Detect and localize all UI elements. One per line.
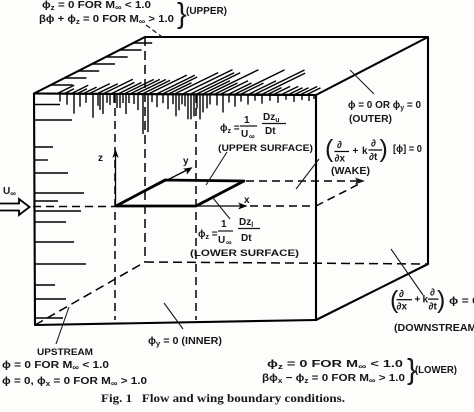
svg-text:+: + [353, 146, 359, 157]
hidden bottom-back edge [145, 262, 428, 264]
svg-text:∂: ∂ [337, 140, 342, 151]
y axis [116, 167, 193, 206]
svg-text:∂x: ∂x [335, 154, 346, 165]
lower surface equation [198, 217, 260, 247]
svg-text:ϕ = 0: ϕ = 0 [449, 296, 474, 307]
x axis [196, 203, 248, 210]
dashed horizontal z=0 right of x arrow [250, 205, 316, 207]
reference dashed verticals [33, 95, 316, 320]
leader lower surface [213, 198, 230, 219]
svg-text:+: + [415, 295, 421, 306]
box front face right edge [315, 95, 317, 320]
box front top edge [34, 94, 316, 96]
svg-text:∞: ∞ [249, 132, 255, 141]
box right face back edge [427, 37, 429, 264]
svg-text:): ) [437, 286, 445, 314]
svg-text:∞: ∞ [226, 238, 232, 247]
wake arrowhead [355, 178, 365, 185]
hidden edges dashed [35, 37, 428, 325]
svg-text:(OUTER): (OUTER) [349, 114, 392, 125]
dashed horizontal z=0 left of origin [33, 206, 115, 208]
hatching: front face left edge horizontals [35, 105, 87, 319]
leader downstream [391, 249, 423, 295]
dashed vertical through wing tip chord [195, 95, 197, 320]
leader dashed to UPPER [146, 25, 165, 39]
svg-text:(LOWER SURFACE): (LOWER SURFACE) [190, 247, 299, 258]
dashed vertical through origin [114, 95, 116, 320]
box right face bottom edge [316, 264, 428, 320]
svg-text:ϕz = 0 FOR M∞ < 1.0: ϕz = 0 FOR M∞ < 1.0 [42, 0, 151, 12]
leader inner [164, 303, 183, 329]
box top face [34, 37, 428, 95]
wake downstream dashed edge on right face [316, 184, 360, 207]
svg-text:x: x [244, 195, 250, 206]
svg-text:∂: ∂ [430, 288, 435, 299]
svg-text:(UPPER): (UPPER) [186, 6, 227, 17]
svg-text:ϕz =: ϕz = [220, 123, 240, 135]
svg-text:βϕ + ϕz = 0 FOR M∞ > 1.0: βϕ + ϕz = 0 FOR M∞ > 1.0 [39, 14, 174, 26]
svg-text:Dt: Dt [265, 126, 276, 137]
downstream equation [390, 286, 474, 314]
svg-text:(DOWNSTREAM): (DOWNSTREAM) [394, 323, 474, 334]
svg-text:∂t: ∂t [369, 152, 378, 163]
wake outer dashed edge [246, 180, 360, 182]
wing planform [116, 180, 244, 206]
svg-text:z: z [98, 153, 103, 164]
hidden back-left vertical edge [144, 37, 146, 262]
svg-text:(: ( [325, 135, 334, 163]
svg-text:Fig. 1 Flow and wing boundar: Fig. 1 Flow and wing boundary conditions… [101, 393, 345, 405]
svg-text:ϕz =: ϕz = [198, 229, 218, 241]
svg-text:1: 1 [244, 115, 250, 126]
leader upper surface [206, 152, 227, 185]
hatching: top face diagonals [58, 70, 321, 95]
svg-text:ϕ = 0 OR ϕy = 0: ϕ = 0 OR ϕy = 0 [348, 100, 421, 112]
svg-text:1: 1 [221, 219, 227, 230]
svg-text:Dt: Dt [241, 233, 252, 244]
svg-text:(LOWER): (LOWER) [415, 365, 457, 376]
svg-text:U: U [241, 129, 248, 140]
svg-text:∂: ∂ [399, 289, 404, 300]
hatching: top face horizontals along left edge [51, 43, 153, 85]
hidden bottom-left diagonal edge [35, 262, 145, 325]
U-infinity hollow arrow [0, 199, 30, 215]
svg-text:∂x: ∂x [397, 302, 408, 313]
upper surface equation [220, 112, 286, 141]
z axis [112, 149, 118, 206]
svg-text:βϕx − ϕz = 0 FOR M∞ > 1.0: βϕx − ϕz = 0 FOR M∞ > 1.0 [262, 373, 405, 385]
hatching: front face top edge ticks [60, 94, 314, 135]
svg-text:U∞: U∞ [3, 186, 16, 198]
svg-text:[ϕ] = 0: [ϕ] = 0 [393, 144, 422, 155]
svg-text:): ) [380, 135, 388, 163]
box front face bottom edge [35, 320, 316, 325]
svg-text:U: U [218, 235, 225, 246]
box front face left edge [34, 94, 35, 326]
svg-text:ϕy = 0 (INNER): ϕy = 0 (INNER) [148, 336, 222, 348]
svg-text:ϕ = 0, ϕx = 0 FOR M∞ > 1.0: ϕ = 0, ϕx = 0 FOR M∞ > 1.0 [2, 376, 147, 388]
svg-text:UPSTREAM: UPSTREAM [37, 346, 93, 357]
svg-text:y: y [183, 156, 189, 167]
svg-text:Dzu: Dzu [263, 112, 280, 124]
wake equation [325, 135, 422, 165]
leader upstream [56, 307, 69, 344]
leader wake [296, 159, 319, 189]
svg-text:(UPPER SURFACE): (UPPER SURFACE) [218, 142, 313, 153]
svg-text:Dzl: Dzl [239, 217, 253, 229]
svg-text:ϕ = 0 FOR M∞ < 1.0: ϕ = 0 FOR M∞ < 1.0 [2, 360, 110, 372]
svg-text:(WAKE): (WAKE) [331, 166, 370, 177]
svg-text:ϕz = 0 FOR M∞ < 1.0: ϕz = 0 FOR M∞ < 1.0 [267, 359, 404, 371]
leader outer [350, 70, 374, 94]
svg-text:∂: ∂ [371, 139, 376, 150]
wake dashed lines [246, 181, 360, 206]
svg-text:k: k [362, 146, 368, 157]
